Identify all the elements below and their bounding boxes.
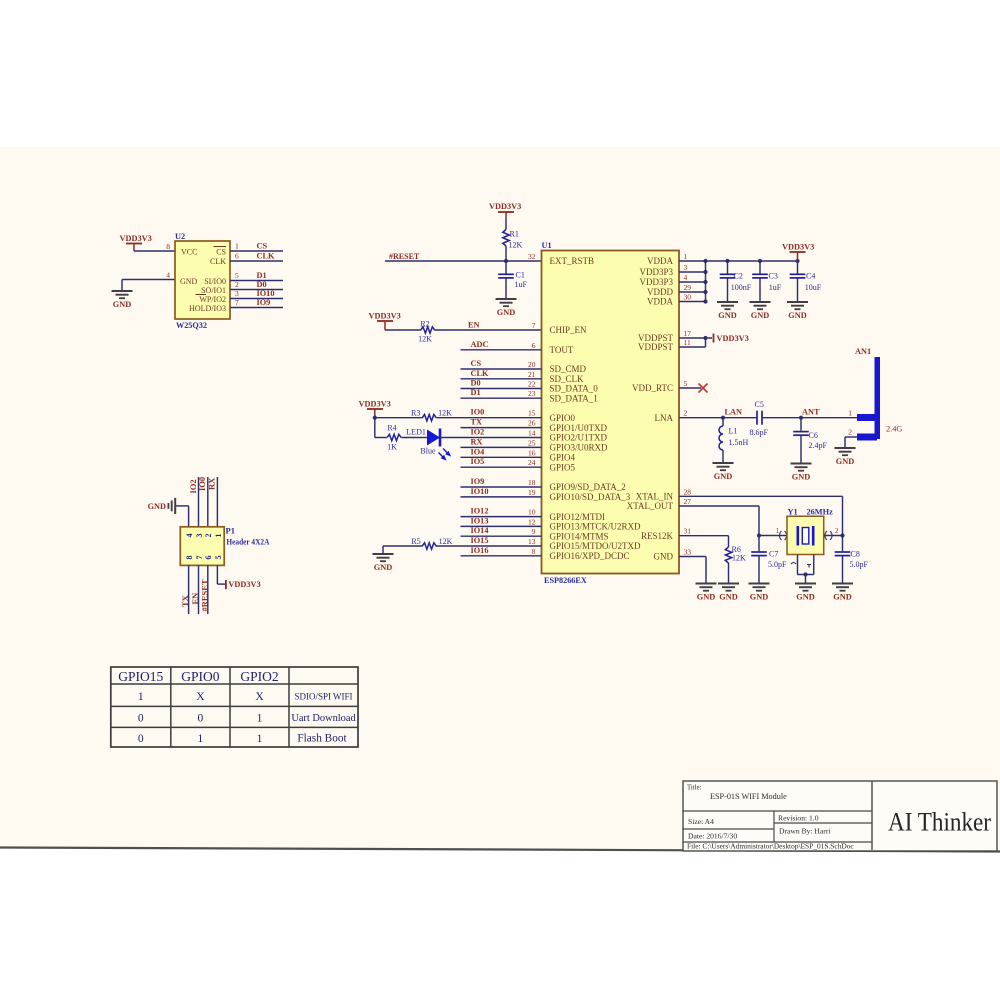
svg-text:30: 30 bbox=[684, 293, 692, 302]
svg-text:VDD3P3: VDD3P3 bbox=[639, 267, 673, 277]
svg-text:C7: C7 bbox=[769, 550, 778, 559]
ground (AN1) bbox=[835, 448, 856, 466]
capacitor C4 bbox=[790, 261, 822, 302]
wire to R3 bbox=[375, 417, 423, 419]
antenna AN1 bbox=[855, 347, 880, 439]
wire net IO10 bbox=[461, 496, 542, 498]
svg-text:GPIO3/U0RXD: GPIO3/U0RXD bbox=[550, 443, 609, 453]
power VDD3V3 (R2) bbox=[369, 312, 401, 331]
svg-text:5.0pF: 5.0pF bbox=[850, 560, 869, 569]
svg-text:2: 2 bbox=[235, 280, 239, 289]
svg-text:16: 16 bbox=[528, 448, 536, 457]
junction LAN bbox=[721, 416, 725, 420]
ground (U2) bbox=[112, 291, 133, 309]
wire VDD_RTC stub bbox=[679, 387, 701, 389]
svg-text:14: 14 bbox=[528, 429, 536, 438]
U1 right pin names and numbers bbox=[627, 252, 692, 562]
svg-text:D1: D1 bbox=[471, 388, 481, 397]
ic U1 ESP8266EX bbox=[542, 241, 680, 585]
wire net CS bbox=[461, 368, 542, 370]
svg-text:15: 15 bbox=[528, 409, 536, 418]
svg-text:#RESET: #RESET bbox=[199, 579, 209, 611]
svg-text:RX: RX bbox=[207, 477, 217, 490]
wire LNA to LAN node bbox=[679, 417, 757, 419]
svg-text:12: 12 bbox=[528, 517, 536, 526]
svg-text:2.4G: 2.4G bbox=[886, 425, 902, 434]
svg-text:X: X bbox=[255, 691, 264, 703]
svg-text:GND: GND bbox=[374, 563, 392, 572]
svg-text:7: 7 bbox=[195, 556, 204, 560]
svg-text:GND: GND bbox=[714, 472, 732, 481]
svg-text:2: 2 bbox=[835, 527, 839, 535]
svg-text:XTAL_OUT: XTAL_OUT bbox=[627, 501, 674, 511]
svg-text:SD_DATA_0: SD_DATA_0 bbox=[550, 384, 599, 394]
svg-text:IO14: IO14 bbox=[471, 526, 489, 535]
svg-text:GND: GND bbox=[497, 308, 515, 317]
ground (C1) bbox=[496, 299, 517, 317]
svg-text:SI/IO0: SI/IO0 bbox=[204, 277, 226, 286]
svg-text:5: 5 bbox=[684, 379, 688, 388]
svg-text:GPIO15: GPIO15 bbox=[118, 669, 163, 684]
svg-text:1: 1 bbox=[138, 691, 144, 703]
svg-text:12K: 12K bbox=[438, 409, 452, 418]
svg-text:RX: RX bbox=[471, 437, 483, 446]
svg-text:Date: 2016/7/30: Date: 2016/7/30 bbox=[688, 832, 737, 841]
svg-text:CS: CS bbox=[257, 242, 268, 251]
svg-text:VDDA: VDDA bbox=[647, 297, 673, 307]
wire #RESET bbox=[385, 260, 542, 262]
capacitor C6 bbox=[793, 418, 827, 464]
svg-text:1: 1 bbox=[257, 713, 263, 725]
wire net IO2 bbox=[440, 437, 542, 439]
flash U2 W25Q32 bbox=[166, 232, 239, 330]
junction VDD3V3/IO0 bbox=[373, 416, 377, 420]
wire net IO15 bbox=[436, 545, 542, 547]
ground (C3) bbox=[750, 302, 771, 320]
svg-text:Drawn By: Harri: Drawn By: Harri bbox=[779, 827, 830, 836]
svg-text:ADC: ADC bbox=[471, 340, 489, 349]
svg-text:18: 18 bbox=[528, 478, 536, 487]
wire net IO10 (U2) bbox=[230, 298, 283, 300]
wire net D1 bbox=[461, 397, 542, 399]
svg-text:IO16: IO16 bbox=[471, 546, 489, 555]
svg-text:12K: 12K bbox=[439, 537, 453, 546]
capacitor C5 bbox=[750, 400, 769, 437]
svg-text:GND: GND bbox=[792, 473, 810, 482]
svg-text:26MHz: 26MHz bbox=[807, 508, 834, 517]
svg-text:6: 6 bbox=[235, 252, 239, 261]
wire net IO0 bbox=[436, 417, 542, 419]
svg-text:R1: R1 bbox=[510, 230, 519, 239]
wire net IO9 bbox=[461, 486, 542, 488]
svg-text:C2: C2 bbox=[734, 272, 743, 281]
wire crystal pin2 bbox=[824, 535, 843, 537]
capacitor C2 bbox=[720, 261, 752, 302]
svg-text:File: C:\Users\Administrator\: File: C:\Users\Administrator\Desktop\ESP… bbox=[687, 842, 854, 851]
svg-text:1: 1 bbox=[684, 252, 688, 261]
ground (R6) bbox=[718, 584, 739, 602]
wire net IO14 bbox=[461, 535, 542, 537]
svg-text:GPIO16/XPD_DCDC: GPIO16/XPD_DCDC bbox=[550, 551, 630, 561]
wire net TX (P1 pin8) bbox=[188, 565, 190, 614]
svg-text:28: 28 bbox=[684, 487, 692, 496]
wire net IO16 bbox=[461, 555, 542, 557]
svg-text:5.0pF: 5.0pF bbox=[768, 560, 787, 569]
svg-text:12K: 12K bbox=[509, 241, 523, 250]
svg-text:25: 25 bbox=[528, 438, 536, 447]
svg-text:7: 7 bbox=[235, 298, 239, 307]
svg-text:CS: CS bbox=[216, 248, 226, 257]
wire U1 GND pin bbox=[679, 557, 706, 584]
svg-text:U2: U2 bbox=[175, 232, 185, 241]
svg-text:0: 0 bbox=[138, 713, 144, 725]
svg-text:HOLD/IO3: HOLD/IO3 bbox=[189, 304, 226, 313]
resistor R5 bbox=[411, 537, 452, 549]
svg-text:1: 1 bbox=[848, 409, 852, 418]
svg-text:GND: GND bbox=[697, 593, 715, 602]
svg-text:0: 0 bbox=[138, 733, 144, 745]
svg-text:1: 1 bbox=[235, 242, 239, 251]
svg-text:IO13: IO13 bbox=[471, 516, 489, 525]
svg-text:C4: C4 bbox=[806, 272, 815, 281]
ground (U1 pin33) bbox=[696, 584, 717, 602]
svg-text:12K: 12K bbox=[418, 335, 432, 344]
svg-text:2: 2 bbox=[684, 409, 688, 418]
svg-text:1K: 1K bbox=[387, 443, 397, 452]
svg-text:Uart Download: Uart Download bbox=[291, 713, 356, 724]
ground (C2) bbox=[717, 302, 738, 320]
svg-text:WP/IO2: WP/IO2 bbox=[199, 295, 226, 304]
svg-text:3: 3 bbox=[684, 263, 688, 272]
junction XTAL_OUT/C7 bbox=[757, 533, 761, 537]
junction R1/C1/#RESET bbox=[504, 259, 508, 263]
header P1 Header 4X2A bbox=[180, 526, 270, 566]
svg-text:GPIO15/MTDO/U2TXD: GPIO15/MTDO/U2TXD bbox=[550, 541, 641, 551]
svg-text:6: 6 bbox=[532, 341, 536, 350]
svg-text:1uF: 1uF bbox=[769, 283, 782, 292]
resistor R6 bbox=[725, 545, 746, 584]
svg-text:R5: R5 bbox=[411, 537, 420, 546]
svg-text:TOUT: TOUT bbox=[550, 345, 574, 355]
svg-text:GPIO2/U1TXD: GPIO2/U1TXD bbox=[550, 433, 608, 443]
svg-text:EN: EN bbox=[468, 321, 480, 330]
svg-text:VDDPST: VDDPST bbox=[638, 342, 674, 352]
svg-text:6: 6 bbox=[204, 556, 213, 560]
svg-text:U1: U1 bbox=[542, 241, 552, 250]
svg-text:8.6pF: 8.6pF bbox=[750, 428, 769, 437]
wire P1 pin4 to ground bbox=[175, 506, 188, 527]
svg-text:GPIO10/SD_DATA_3: GPIO10/SD_DATA_3 bbox=[550, 492, 631, 502]
svg-text:C8: C8 bbox=[851, 550, 860, 559]
svg-text:IO2: IO2 bbox=[471, 428, 485, 437]
wire to R4 bbox=[375, 437, 387, 439]
svg-text:4: 4 bbox=[684, 273, 688, 282]
svg-text:TX: TX bbox=[180, 594, 190, 607]
svg-text:GND: GND bbox=[718, 311, 736, 320]
svg-text:27: 27 bbox=[684, 497, 692, 506]
ground (C4) bbox=[787, 302, 808, 320]
svg-text:21: 21 bbox=[528, 370, 536, 379]
svg-text:2: 2 bbox=[848, 428, 852, 437]
wire net IO5 bbox=[461, 466, 542, 468]
junction VDDPST bbox=[703, 336, 707, 340]
svg-text:VDDD: VDDD bbox=[647, 287, 673, 297]
svg-text:CLK: CLK bbox=[471, 369, 490, 378]
svg-text:D1: D1 bbox=[257, 271, 267, 280]
junction VDD bus bbox=[703, 259, 799, 304]
schematic sheet background bbox=[0, 147, 1000, 852]
ground (P1 pin4) bbox=[148, 498, 176, 514]
svg-text:SDIO/SPI WIFI: SDIO/SPI WIFI bbox=[294, 692, 352, 702]
wire crystal case ground bbox=[791, 555, 814, 584]
wire net D0 (U2) bbox=[230, 289, 283, 291]
wire R4 to LED1 bbox=[402, 437, 428, 439]
svg-text:GND: GND bbox=[788, 311, 806, 320]
svg-text:GPIO14/MTMS: GPIO14/MTMS bbox=[550, 531, 609, 541]
wire net IO0 (P1 pin2) bbox=[207, 477, 209, 527]
power VDD3V3 (R1) bbox=[489, 202, 521, 218]
svg-text:GPIO1/U0TXD: GPIO1/U0TXD bbox=[550, 423, 608, 433]
wire VDDPST pins bbox=[679, 338, 712, 347]
svg-text:IO5: IO5 bbox=[471, 457, 485, 466]
svg-text:7: 7 bbox=[532, 321, 536, 330]
svg-text:CLK: CLK bbox=[257, 252, 276, 261]
led LED1 Blue bbox=[406, 428, 450, 460]
wire VDD pins to bus bbox=[679, 261, 706, 302]
svg-text:Blue: Blue bbox=[420, 447, 436, 456]
svg-text:R3: R3 bbox=[411, 409, 420, 418]
svg-text:10: 10 bbox=[528, 508, 536, 517]
svg-text:4: 4 bbox=[185, 534, 194, 538]
svg-text:1: 1 bbox=[257, 733, 263, 745]
wire net EN (P1 pin7) bbox=[198, 565, 200, 614]
svg-text:1uF: 1uF bbox=[515, 280, 528, 289]
wire VDD3V3 to R2 bbox=[385, 329, 421, 331]
ground (Y1 case) bbox=[795, 584, 816, 602]
wire net CLK (U2) bbox=[230, 260, 283, 262]
wire net IO9 (U2) bbox=[230, 307, 283, 309]
svg-text:8: 8 bbox=[185, 556, 194, 560]
svg-text:CLK: CLK bbox=[210, 257, 226, 266]
svg-text:AI Thinker: AI Thinker bbox=[888, 807, 991, 837]
svg-text:VDD_RTC: VDD_RTC bbox=[632, 383, 673, 393]
svg-text:31: 31 bbox=[684, 527, 692, 536]
svg-text:GPIO9/SD_DATA_2: GPIO9/SD_DATA_2 bbox=[550, 482, 626, 492]
wire net #RESET (P1 pin6) bbox=[207, 565, 209, 614]
svg-text:SD_CMD: SD_CMD bbox=[550, 364, 587, 374]
svg-text:VDD3V3: VDD3V3 bbox=[369, 312, 401, 321]
wire VDDA power bus bbox=[679, 260, 798, 262]
junction crystal case bbox=[803, 572, 807, 576]
svg-text:GND: GND bbox=[719, 593, 737, 602]
capacitor C1 bbox=[498, 271, 527, 290]
wire GND to R5 bbox=[383, 545, 423, 547]
svg-text:CHIP_EN: CHIP_EN bbox=[550, 325, 588, 335]
svg-text:D0: D0 bbox=[471, 379, 481, 388]
svg-text:EXT_RSTB: EXT_RSTB bbox=[550, 256, 595, 266]
svg-text:IO0: IO0 bbox=[471, 408, 485, 417]
svg-text:GPIO12/MTDI: GPIO12/MTDI bbox=[550, 512, 606, 522]
wire XTAL_IN bbox=[679, 496, 843, 535]
svg-text:3: 3 bbox=[235, 289, 239, 298]
svg-text:VDD3V3: VDD3V3 bbox=[359, 400, 391, 409]
ground (C6) bbox=[791, 464, 812, 482]
capacitor C7 bbox=[751, 536, 787, 584]
svg-text:GPIO4: GPIO4 bbox=[550, 453, 576, 463]
power VDD3V3 (U2 VCC) bbox=[120, 234, 152, 251]
svg-text:VDD3P3: VDD3P3 bbox=[639, 277, 673, 287]
svg-text:17: 17 bbox=[684, 329, 692, 338]
svg-text:2: 2 bbox=[204, 534, 213, 538]
svg-text:3: 3 bbox=[195, 534, 204, 538]
svg-text:5: 5 bbox=[214, 556, 223, 560]
svg-text:C6: C6 bbox=[809, 431, 818, 440]
wire net IO12 bbox=[461, 516, 542, 518]
svg-text:GND: GND bbox=[750, 593, 768, 602]
power VDD3V3 (R3/R4) bbox=[359, 400, 391, 415]
wire net RX (P1 pin1) bbox=[216, 477, 218, 527]
svg-text:1: 1 bbox=[776, 527, 780, 535]
svg-text:R4: R4 bbox=[387, 424, 396, 433]
wire C1 to ground bbox=[505, 278, 507, 299]
capacitor C8 bbox=[835, 536, 869, 584]
svg-text:GPIO0: GPIO0 bbox=[181, 669, 220, 684]
svg-text:100nF: 100nF bbox=[731, 283, 752, 292]
svg-text:ANT: ANT bbox=[802, 408, 820, 417]
svg-text:R2: R2 bbox=[420, 320, 429, 329]
svg-text:GND: GND bbox=[833, 593, 851, 602]
svg-text:12K: 12K bbox=[732, 554, 746, 563]
svg-text:#RESET: #RESET bbox=[389, 252, 420, 261]
svg-text:GPIO0: GPIO0 bbox=[550, 413, 576, 423]
svg-text:ESP-01S WIFI Module: ESP-01S WIFI Module bbox=[710, 792, 787, 801]
svg-text:32: 32 bbox=[528, 252, 536, 261]
power VDD3V3 (C4) bbox=[782, 243, 814, 262]
svg-text:23: 23 bbox=[528, 389, 536, 398]
svg-text:Title:: Title: bbox=[687, 785, 702, 792]
svg-text:GND: GND bbox=[148, 502, 166, 511]
svg-text:29: 29 bbox=[684, 283, 692, 292]
svg-text:TX: TX bbox=[471, 418, 483, 427]
svg-text:Revision: 1.0: Revision: 1.0 bbox=[778, 814, 819, 823]
svg-text:SO/IO1: SO/IO1 bbox=[201, 286, 226, 295]
svg-text:Header 4X2A: Header 4X2A bbox=[226, 537, 270, 547]
resistor R1 bbox=[503, 230, 523, 250]
pin 2 (Y1) bbox=[825, 527, 839, 540]
wire VDD3V3 down to R4 bbox=[374, 418, 376, 438]
svg-text:IO9: IO9 bbox=[257, 298, 271, 307]
svg-text:GND: GND bbox=[113, 300, 131, 309]
svg-text:IO12: IO12 bbox=[471, 507, 489, 516]
svg-text:1: 1 bbox=[214, 534, 223, 538]
pin 1 (Y1) bbox=[776, 527, 787, 540]
svg-text:L1: L1 bbox=[729, 427, 738, 436]
title block bbox=[683, 781, 997, 851]
svg-text:VDD3V3: VDD3V3 bbox=[717, 334, 749, 343]
svg-text:0: 0 bbox=[198, 713, 204, 725]
ground (C8) bbox=[832, 584, 853, 602]
svg-text:8: 8 bbox=[166, 242, 170, 251]
svg-text:GPIO5: GPIO5 bbox=[550, 462, 576, 472]
wire net CLK bbox=[461, 378, 542, 380]
wire crystal pin1 bbox=[759, 535, 787, 537]
svg-text:VDD3V3: VDD3V3 bbox=[782, 243, 814, 252]
wire VDD3V3 to R1 bbox=[505, 218, 507, 230]
wire net CS (U2) bbox=[230, 250, 283, 252]
svg-text:RES12K: RES12K bbox=[641, 531, 674, 541]
wire P1 pin5 to VDD3V3 bbox=[217, 565, 226, 584]
svg-text:W25Q32: W25Q32 bbox=[176, 320, 208, 330]
wire net TX bbox=[461, 427, 542, 429]
svg-text:Size: A4: Size: A4 bbox=[688, 817, 714, 826]
wire net IO4 bbox=[461, 456, 542, 458]
wire net D0 bbox=[461, 388, 542, 390]
svg-text:22: 22 bbox=[528, 380, 536, 389]
svg-text:26: 26 bbox=[528, 419, 536, 428]
sheet bottom edge line bbox=[0, 848, 1000, 852]
svg-text:C1: C1 bbox=[516, 271, 525, 280]
svg-text:GND: GND bbox=[180, 277, 198, 286]
svg-text:GND: GND bbox=[796, 593, 814, 602]
resistor R2 bbox=[418, 320, 435, 344]
ground (L1) bbox=[713, 463, 734, 481]
wire RES12K to R6 bbox=[679, 536, 729, 547]
wire XTAL_OUT bbox=[679, 506, 759, 536]
svg-text:IO4: IO4 bbox=[471, 447, 485, 456]
svg-text:IO10: IO10 bbox=[471, 487, 489, 496]
wire net EN bbox=[435, 329, 542, 331]
svg-text:5: 5 bbox=[235, 271, 239, 280]
svg-text:9: 9 bbox=[532, 527, 536, 536]
svg-text:1.5nH: 1.5nH bbox=[729, 438, 749, 447]
svg-text:1: 1 bbox=[198, 733, 204, 745]
wire AN1 pin2 to ground bbox=[845, 437, 857, 448]
svg-text:VDD3V3: VDD3V3 bbox=[120, 234, 152, 243]
wire net RX bbox=[461, 446, 542, 448]
svg-text:GND: GND bbox=[654, 552, 674, 562]
svg-text:XTAL_IN: XTAL_IN bbox=[636, 492, 674, 502]
wire R1 to node RESET bbox=[505, 246, 507, 261]
svg-text:4: 4 bbox=[166, 271, 170, 280]
resistor R4 bbox=[387, 424, 401, 452]
svg-text:SD_CLK: SD_CLK bbox=[550, 374, 585, 384]
no-connect X (VDD_RTC) bbox=[699, 384, 708, 393]
svg-text:Flash Boot: Flash Boot bbox=[297, 733, 347, 745]
wire net ADC bbox=[461, 349, 542, 351]
svg-text:IO0: IO0 bbox=[197, 477, 207, 491]
wire node to C1 bbox=[505, 261, 507, 274]
svg-text:GND: GND bbox=[836, 457, 854, 466]
resistor R3 bbox=[411, 409, 452, 421]
svg-text:VDDA: VDDA bbox=[647, 256, 673, 266]
svg-text:11: 11 bbox=[684, 338, 691, 347]
svg-text:Y1: Y1 bbox=[788, 508, 798, 517]
GPIO boot-mode table bbox=[111, 667, 358, 747]
wire U2 pin4 GND bbox=[122, 280, 175, 292]
wire VDD3V3 down to IO0 row bbox=[374, 414, 376, 418]
svg-text:24: 24 bbox=[528, 458, 536, 467]
svg-text:X: X bbox=[196, 691, 205, 703]
svg-text:LNA: LNA bbox=[655, 413, 674, 423]
svg-text:33: 33 bbox=[684, 548, 692, 557]
svg-text:8: 8 bbox=[532, 547, 536, 556]
ground (R5) bbox=[373, 546, 394, 572]
ground (C7) bbox=[749, 584, 770, 602]
svg-text:IO9: IO9 bbox=[471, 477, 485, 486]
wire net IO13 bbox=[461, 525, 542, 527]
svg-text:19: 19 bbox=[528, 488, 536, 497]
power VDD3V3 (P1) bbox=[226, 580, 261, 589]
